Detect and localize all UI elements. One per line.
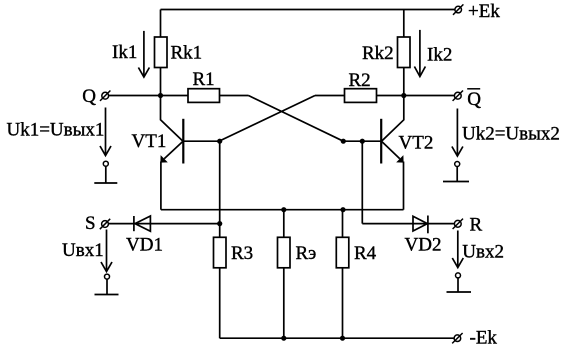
svg-text:Q: Q	[82, 86, 96, 107]
voltage arrow Uk1	[105, 108, 107, 156]
wire R4 to bottom rail	[342, 268, 344, 338]
svg-text:Rk1: Rk1	[171, 43, 203, 64]
voltage arrow Uvx2	[457, 231, 459, 268]
wire VT1 emitter down	[160, 162, 162, 210]
connector circle left output	[103, 161, 108, 166]
wire R2 to node Qbar	[377, 95, 404, 97]
node emitter bus R4 dot	[340, 207, 345, 212]
node bottom rail Re dot	[281, 336, 286, 341]
wire node to R3	[219, 224, 221, 238]
diode VD1 cathode bar	[133, 216, 135, 231]
terminal Q	[102, 92, 109, 99]
wire VT1 base node down to S line	[219, 141, 221, 223]
wire Rk2 to node Qbar	[403, 68, 405, 96]
wire VT2 base node down	[361, 141, 363, 223]
svg-text:Uвх1: Uвх1	[62, 240, 104, 261]
svg-text:R4: R4	[354, 243, 377, 264]
node VT2 base dot A	[341, 139, 346, 144]
voltage arrow Uk2	[456, 109, 458, 156]
transistor VT1 emitter wire	[164, 142, 182, 159]
voltage arrow Uvx1	[106, 230, 108, 272]
svg-text:Uk1=Uвых1: Uk1=Uвых1	[7, 120, 105, 141]
wire Rk1 to node Q	[160, 68, 162, 96]
wire S terminal to VD1	[109, 223, 220, 225]
diode VD2 cathode bar	[427, 216, 429, 234]
resistor R1	[188, 89, 220, 103]
transistor VT1 base wire	[183, 140, 219, 142]
node Qbar junction dot	[401, 93, 406, 98]
wire emitter bus	[161, 209, 404, 211]
node S line junction dot	[217, 221, 222, 226]
node VT2 base dot B	[360, 139, 365, 144]
svg-text:+Ek: +Ek	[468, 1, 500, 22]
transistor VT1 base bar	[182, 119, 184, 164]
svg-text:R: R	[470, 215, 483, 236]
wire R3 to bottom rail	[219, 268, 221, 338]
wire cross-coupling R1 to VT2 base	[249, 96, 344, 142]
wire VT2 emitter down	[403, 162, 405, 210]
terminal Qbar	[454, 92, 461, 99]
transistor VT2 emitter arrowhead	[396, 155, 403, 163]
terminal +Ek	[455, 6, 462, 13]
node emitter bus Re dot	[281, 207, 286, 212]
wire cross-coupling bend to R2	[315, 95, 345, 97]
wire Q terminal to R1	[109, 95, 188, 97]
node VT1 base junction dot	[217, 139, 222, 144]
svg-text:R3: R3	[231, 243, 253, 264]
terminal S	[102, 221, 109, 228]
transistor VT2 emitter wire	[382, 142, 400, 159]
wire Re up to emitter bus	[283, 210, 285, 238]
connector circle right input	[456, 273, 461, 278]
svg-text:R1: R1	[193, 69, 215, 90]
current arrow Ik2	[419, 30, 421, 76]
node bottom rail R4 dot	[340, 336, 345, 341]
ground right output	[456, 167, 458, 182]
diode VD2 triangle	[413, 216, 427, 231]
svg-text:VD1: VD1	[126, 235, 163, 256]
resistor R4	[336, 237, 349, 267]
wire rail to Rk1	[160, 10, 162, 38]
svg-text:Uk2=Uвых2: Uk2=Uвых2	[462, 124, 560, 145]
diode VD1 triangle	[135, 216, 150, 231]
svg-text:Uвх2: Uвх2	[462, 242, 504, 263]
resistor Rk2	[398, 37, 411, 68]
resistor Re	[278, 237, 291, 267]
current arrow Ik1	[143, 31, 145, 77]
ground right input	[457, 278, 459, 292]
transistor VT2 base bar	[380, 119, 382, 164]
wire rail to Rk2	[403, 10, 405, 38]
wire bottom rail	[220, 337, 455, 339]
label Qbar overbar	[467, 88, 480, 90]
svg-text:VT1: VT1	[132, 131, 167, 152]
svg-text:VT2: VT2	[399, 133, 434, 154]
svg-text:VD2: VD2	[405, 235, 442, 256]
ground left output	[105, 167, 107, 184]
wire to VD2	[362, 223, 454, 225]
wire R1 to cross-coupling bend	[220, 95, 249, 97]
svg-text:S: S	[85, 213, 96, 234]
resistor R2	[345, 89, 377, 103]
wire +Ek rail	[161, 9, 456, 11]
transistor VT2 base wire	[343, 140, 381, 142]
node Q junction dot	[158, 93, 163, 98]
svg-text:Ik2: Ik2	[427, 45, 452, 66]
wire R4 up to emitter bus	[342, 210, 344, 238]
svg-text:Rk2: Rk2	[362, 43, 394, 64]
resistor R3	[214, 237, 227, 267]
svg-text:Q: Q	[467, 89, 481, 110]
resistor Rk1	[155, 37, 168, 68]
connector circle right output	[455, 162, 460, 167]
svg-text:R2: R2	[349, 70, 371, 91]
ground left input	[106, 279, 108, 294]
terminal R	[454, 220, 461, 227]
connector circle left input	[105, 274, 110, 279]
wire node Qbar to terminal Qbar	[404, 95, 455, 97]
wire Re to bottom rail	[283, 268, 285, 338]
svg-text:Ik1: Ik1	[112, 42, 137, 63]
svg-text:Rэ: Rэ	[296, 243, 317, 264]
transistor VT2 collector wire	[382, 96, 404, 141]
svg-text:-Ek: -Ek	[470, 328, 498, 349]
terminal -Ek	[454, 335, 461, 342]
wire cross-coupling R2 to VT1 base	[220, 96, 315, 141]
transistor VT1 emitter arrowhead	[160, 155, 167, 163]
transistor VT1 collector wire	[161, 96, 183, 141]
